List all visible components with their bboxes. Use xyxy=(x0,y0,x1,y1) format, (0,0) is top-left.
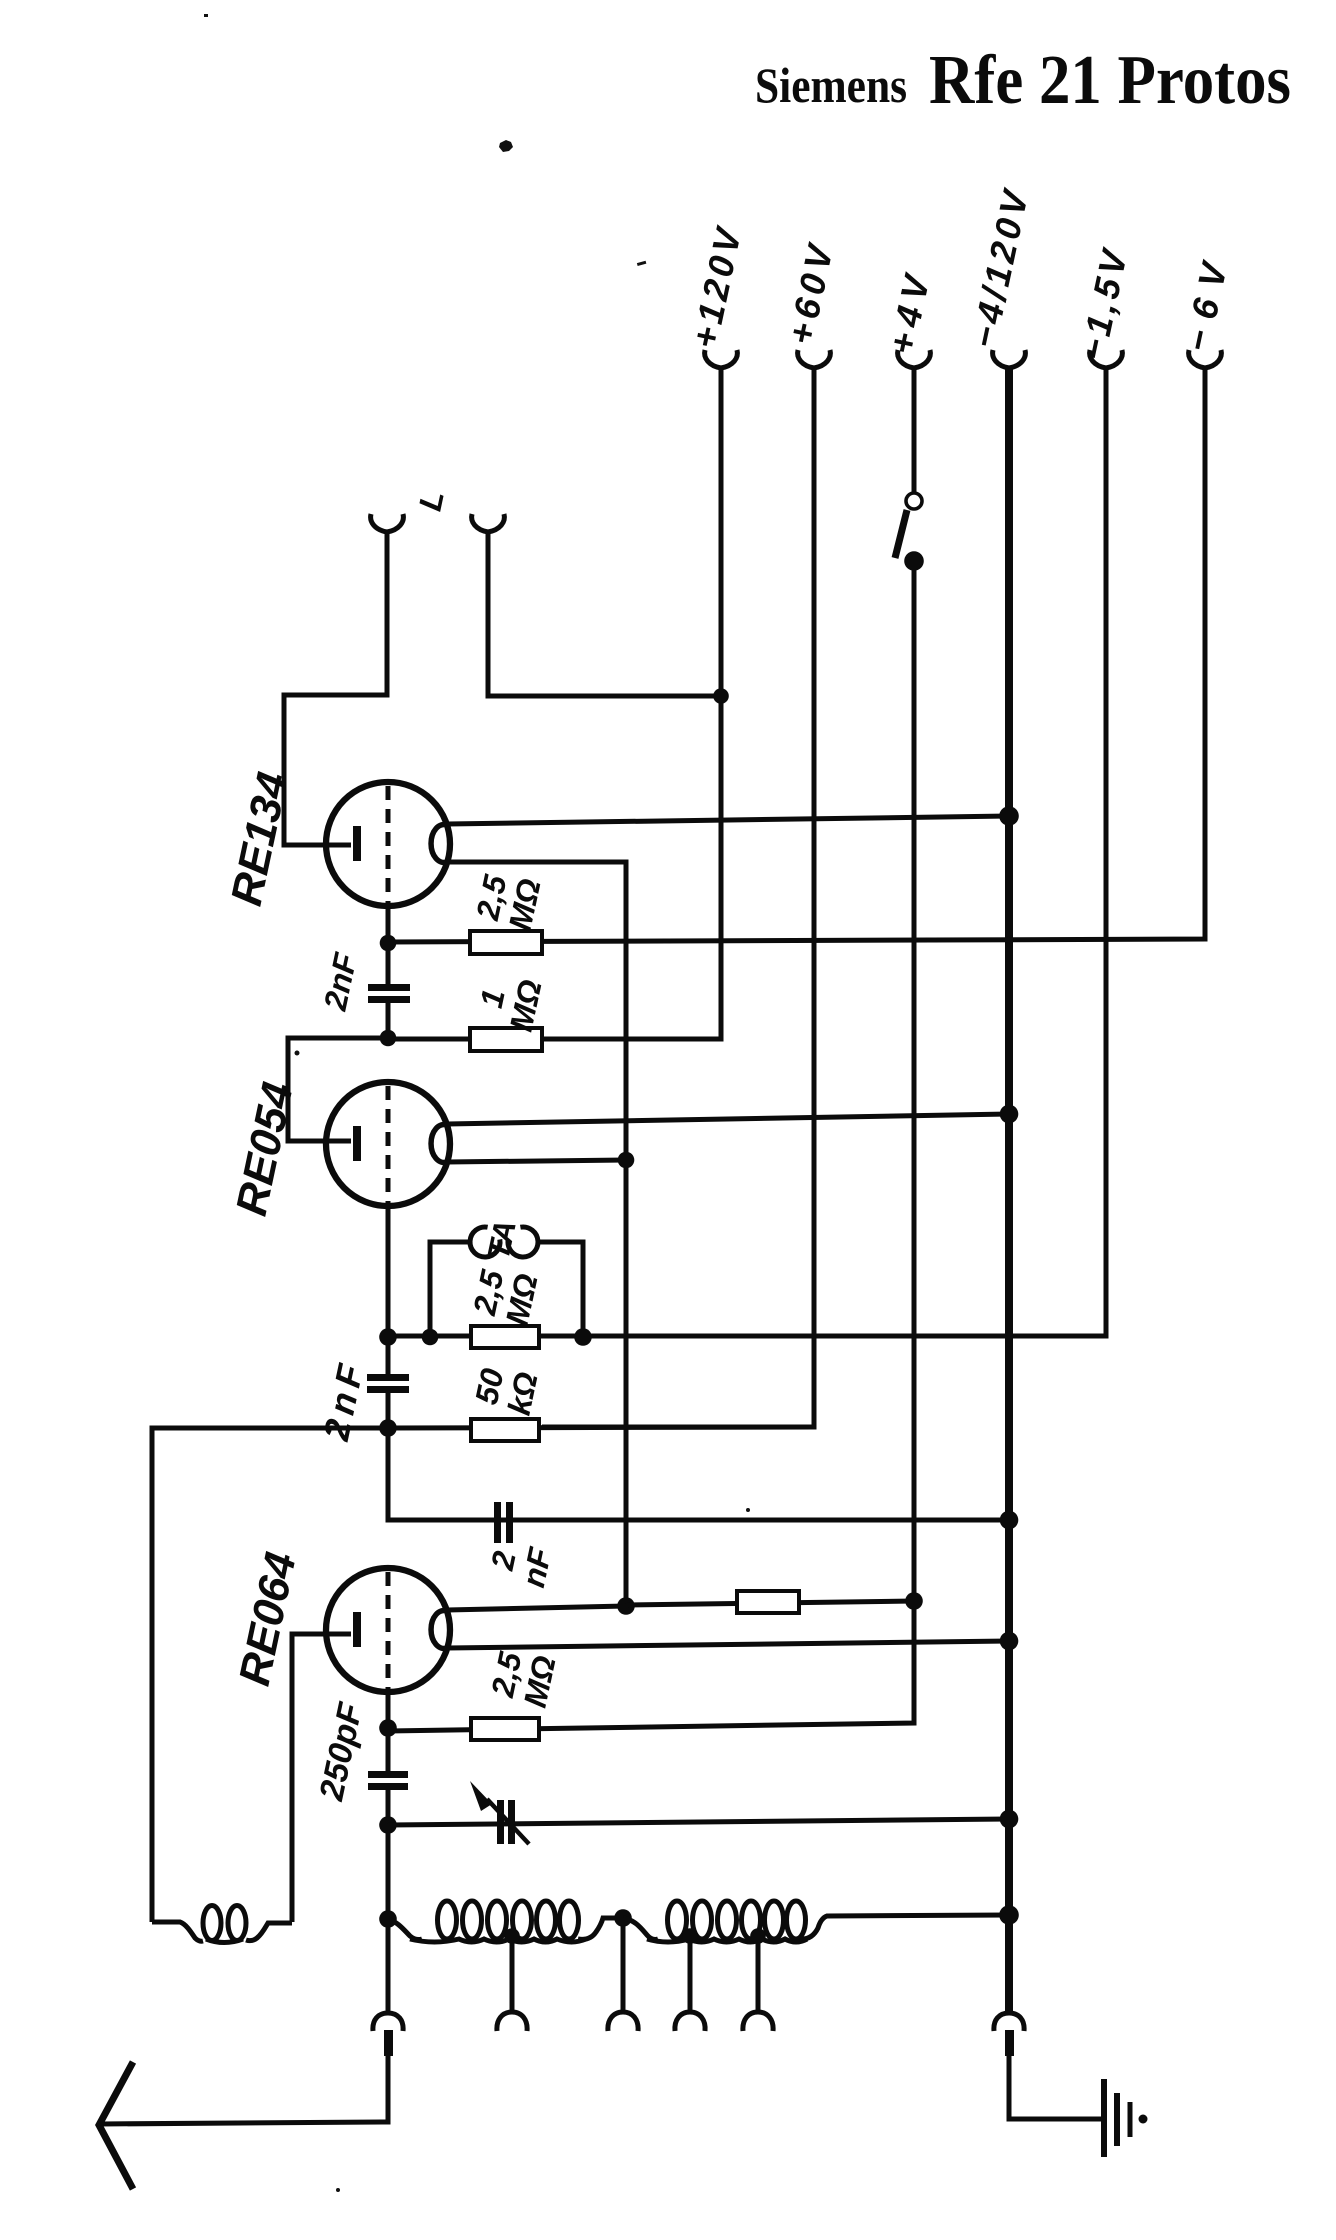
terminal +4V xyxy=(898,350,931,368)
node 50k xyxy=(379,1419,397,1437)
wire U1 anode to -4/120V xyxy=(447,816,1009,824)
inductor L1 grid coil xyxy=(152,1906,292,1943)
tube U1 RE134 xyxy=(326,782,450,906)
svg-text:Siemens: Siemens xyxy=(755,57,907,113)
title Siemens Rfe 21 Protos xyxy=(755,42,1291,119)
switch S1 xyxy=(895,493,924,571)
terminal L right xyxy=(472,514,505,532)
svg-text:Rfe 21 Protos: Rfe 21 Protos xyxy=(929,42,1291,119)
node anode/filament bus xyxy=(617,1597,635,1615)
wire U2 filament right xyxy=(447,1160,626,1162)
terminal -1,5V xyxy=(1090,350,1123,368)
wire U1 filament down xyxy=(447,862,626,1606)
wire -4/120V rail xyxy=(1005,369,1013,2012)
wire L right to +120V rail xyxy=(488,533,721,696)
capacitor C3 2nF horizontal xyxy=(494,1502,513,1543)
wire node to U2 grid xyxy=(288,1038,388,1141)
terminal -6V xyxy=(1189,350,1222,368)
node varcap on -4/120V xyxy=(1000,1810,1019,1829)
wire +120V rail xyxy=(540,369,721,1039)
node L3 tap 2 xyxy=(750,1928,766,1944)
wire TA branch xyxy=(430,1242,583,1337)
socket -4/120V bottom xyxy=(994,2013,1024,2031)
socket tap 3 xyxy=(675,2012,705,2031)
node between coils xyxy=(614,1909,632,1927)
wire +4V upper xyxy=(912,369,917,492)
wire 1M to +120V xyxy=(388,1037,721,1042)
tube U3 RE064 xyxy=(326,1568,450,1692)
wire tap 3 down xyxy=(688,1936,693,2012)
wire U3 cathode down xyxy=(386,1688,391,1728)
terminal +120V xyxy=(705,350,738,368)
inductor L3 antenna coil 2 xyxy=(623,1901,1009,1942)
node on +4V rail xyxy=(905,1592,923,1610)
wire L left to RE134 grid xyxy=(284,533,387,845)
socket tap 2 xyxy=(608,2012,638,2031)
wire +60V rail xyxy=(542,369,814,1427)
plug -4/120V bottom xyxy=(1005,2030,1014,2056)
socket antenna xyxy=(373,2013,403,2031)
inductor L2 antenna coil xyxy=(388,1901,623,1942)
capacitor C5 variable xyxy=(470,1781,529,1844)
node U2 grid-leak xyxy=(379,1328,397,1346)
wire U2 anode to -4/120V xyxy=(447,1114,1009,1124)
wire -1,5V rail xyxy=(388,369,1106,1336)
wire antenna lead down xyxy=(386,1919,391,2012)
socket tap 4 xyxy=(743,2012,773,2031)
node U1 grid-leak xyxy=(380,935,397,952)
jack TA right xyxy=(508,1227,538,1257)
jack TA left xyxy=(470,1227,500,1257)
node filament bus xyxy=(618,1152,635,1169)
resistor R6 xyxy=(737,1591,799,1613)
wire C4 links xyxy=(386,1728,391,1825)
tube U2 RE054 xyxy=(326,1082,450,1206)
wire varcap to -4/120V xyxy=(388,1819,1009,1825)
wire U3 filament to -4/120V xyxy=(447,1641,1009,1648)
plug antenna xyxy=(384,2030,393,2056)
wire left feedback to coil xyxy=(152,1428,388,1922)
wire C2 links xyxy=(386,1337,391,1428)
node on -4/120V xyxy=(1000,1632,1019,1651)
wire U3 anode right xyxy=(447,1606,626,1610)
wire tap 1 down xyxy=(510,1936,515,2012)
node junction L/+120V xyxy=(713,688,729,704)
wire tap 4 down xyxy=(756,1936,761,2012)
wire U3 grid to coil xyxy=(292,1634,351,1922)
node L2 tap xyxy=(504,1928,520,1944)
wire down to coil node xyxy=(386,1825,391,1919)
node on -4/120V xyxy=(1000,1105,1019,1124)
resistor R4 50kOhm xyxy=(471,1419,539,1441)
node U3 grid-leak xyxy=(379,1719,397,1737)
node L3 end on -4/120V xyxy=(999,1905,1019,1925)
node C3 on -4/120V xyxy=(1000,1511,1019,1530)
node coil main xyxy=(379,1910,397,1928)
node TA tap right xyxy=(574,1328,592,1346)
wire U1 cathode down xyxy=(386,902,391,943)
wire anode resistor to +4V xyxy=(626,1601,914,1605)
resistor R2 1MOhm xyxy=(470,1028,542,1051)
wire between-coil tap down xyxy=(621,1918,626,2012)
node U2 grid node xyxy=(380,1030,397,1047)
capacitor C1 2nF xyxy=(368,984,410,1003)
wire C1 links xyxy=(386,943,391,1038)
terminal +60V xyxy=(798,350,831,368)
capacitor C4 250pF xyxy=(368,1771,408,1790)
resistor R1 2,5MOhm xyxy=(470,931,542,954)
terminal L left xyxy=(371,514,404,532)
socket tap 1 xyxy=(497,2012,527,2031)
capacitor C2 2nF xyxy=(367,1374,409,1393)
node L3 tap 1 xyxy=(682,1928,698,1944)
wire U2 cathode down xyxy=(386,1202,391,1337)
antenna symbol xyxy=(99,2062,133,2189)
wire -6V rail xyxy=(388,369,1205,942)
wire down to C3 xyxy=(388,1428,1009,1520)
node on -4/120V xyxy=(999,806,1019,826)
wire to ground xyxy=(1009,2056,1101,2119)
wire +4V lower xyxy=(388,568,914,1731)
wire 50k to +60V xyxy=(388,1427,814,1428)
wire to antenna xyxy=(100,2056,388,2124)
node tuning xyxy=(379,1816,397,1834)
terminal -4/120V xyxy=(993,350,1026,368)
resistor R3 2,5MOhm xyxy=(471,1326,539,1348)
resistor R5 2,5MOhm xyxy=(471,1718,539,1740)
node TA tap left xyxy=(422,1329,439,1346)
ground xyxy=(1104,2079,1148,2157)
